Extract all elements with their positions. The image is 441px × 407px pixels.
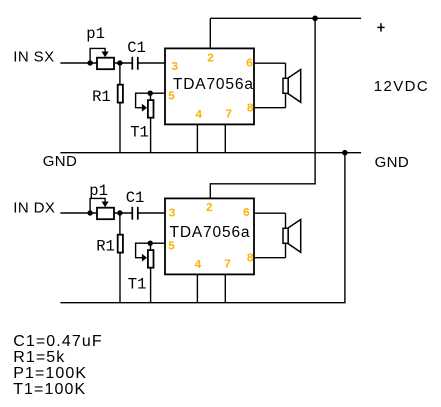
svg-text:12VDC: 12VDC [374,78,429,95]
svg-text:TDA7056a: TDA7056a [173,76,254,93]
svg-text:T1=100K: T1=100K [13,381,86,398]
svg-text:2: 2 [206,201,213,215]
svg-text:3: 3 [168,207,175,221]
svg-text:6: 6 [243,206,250,220]
svg-text:8: 8 [247,102,254,116]
svg-text:3: 3 [171,60,178,74]
svg-text:IN SX: IN SX [13,49,54,66]
svg-text:C1: C1 [126,189,145,207]
svg-text:R1: R1 [92,88,111,106]
svg-text:4: 4 [194,258,201,272]
svg-text:p1: p1 [89,182,108,200]
svg-text:7: 7 [224,257,231,271]
svg-text:IN DX: IN DX [13,199,55,216]
svg-text:2: 2 [207,52,214,66]
svg-text:6: 6 [246,56,253,70]
svg-text:GND: GND [43,153,78,170]
svg-text:5: 5 [168,90,175,104]
svg-text:5: 5 [168,240,175,254]
svg-text:4: 4 [195,108,202,122]
svg-text:GND: GND [375,154,410,171]
svg-text:p1: p1 [86,25,105,43]
svg-text:C1=0.47uF: C1=0.47uF [13,333,103,350]
svg-text:T1: T1 [130,124,149,142]
svg-text:R1=5k: R1=5k [13,349,65,366]
svg-text:7: 7 [225,107,232,121]
svg-text:C1: C1 [127,39,146,57]
svg-text:P1=100K: P1=100K [13,365,87,382]
svg-text:T1: T1 [128,275,147,293]
svg-text:R1: R1 [96,238,115,256]
svg-text:TDA7056a: TDA7056a [170,224,251,241]
svg-text:8: 8 [247,251,254,265]
